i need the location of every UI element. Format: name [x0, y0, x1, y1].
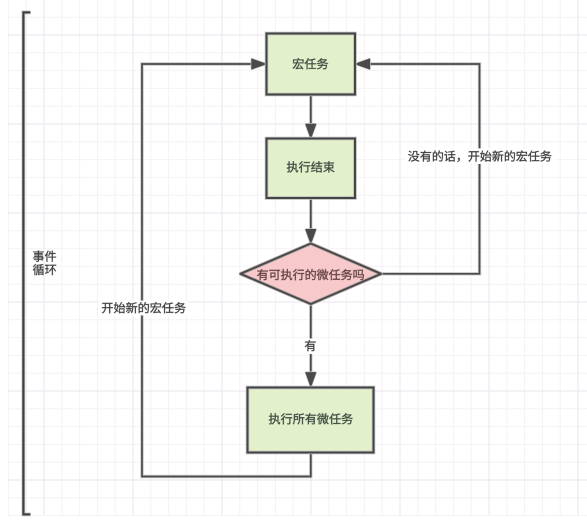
arrowhead into diamond [306, 230, 316, 243]
wire box1 to box2 [309, 95, 312, 130]
wire box3 loop back to box1 left side [142, 64, 311, 477]
event-loop bracket [23, 12, 30, 514]
arrowhead into box3 [306, 373, 316, 386]
arrowhead into box2 [306, 124, 316, 137]
box3 执行所有微任务 [248, 388, 374, 453]
label 事件 [33, 251, 56, 262]
arrowhead into box1 right [356, 59, 369, 69]
box1 text 宏任务 [293, 58, 328, 69]
arrowhead into box1 left [252, 59, 265, 69]
label 开始新的宏任务 [99, 301, 188, 316]
box2 text 执行结束 [287, 161, 335, 172]
diamond 有可执行的微任务吗 [241, 244, 382, 305]
label 没有的话，开始新的宏任务 [405, 148, 555, 163]
wire box2 to diamond [309, 198, 312, 236]
wire diamond to box3 [309, 304, 312, 379]
box3 text 执行所有微任务 [269, 413, 353, 424]
label 有 [303, 339, 319, 354]
box2 执行结束 [267, 139, 356, 199]
diamond text 有可执行的微任务吗 [257, 269, 364, 280]
box1 宏任务 [267, 34, 356, 95]
label 循环 [33, 264, 56, 275]
wire diamond right loop back to box1 right side [364, 64, 480, 274]
